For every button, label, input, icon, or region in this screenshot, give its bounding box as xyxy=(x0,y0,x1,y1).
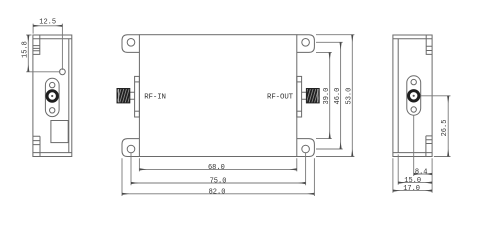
right view SMA center pin xyxy=(413,95,415,97)
svg-text:68.0: 68.0 xyxy=(208,164,225,172)
RF-IN connector flange plate (left edge of front view) xyxy=(135,76,140,117)
svg-text:46.0: 46.0 xyxy=(334,88,342,105)
left view SMA nut ring xyxy=(47,91,57,101)
svg-text:26.5: 26.5 xyxy=(441,120,449,137)
svg-text:75.0: 75.0 xyxy=(210,178,227,186)
left view side screw hole xyxy=(60,69,66,75)
extension lines below front view for 75.0 xyxy=(131,153,306,185)
left view SMA flange outline xyxy=(45,78,59,116)
right view bottom seam line xyxy=(393,152,432,154)
left view bottom seam line xyxy=(33,152,72,154)
left view SMA top screw hole xyxy=(50,82,55,87)
svg-text:8.4: 8.4 xyxy=(415,169,428,177)
svg-text:17.0: 17.0 xyxy=(403,185,420,193)
RF-OUT connector shaft xyxy=(302,92,307,99)
right view center line down from connector xyxy=(413,115,415,176)
dimension line 75.0 xyxy=(131,182,306,184)
extension lines right of front view for 39.0 xyxy=(316,52,332,138)
dimension line 53.0 xyxy=(351,35,353,157)
dimension line 68.0 xyxy=(139,168,296,170)
right view SMA top screw hole xyxy=(411,79,416,84)
left view SMA bottom screw hole xyxy=(50,108,55,113)
dimension line 46.0 xyxy=(340,42,342,149)
svg-text:RF-IN: RF-IN xyxy=(144,93,166,101)
left view window rectangle xyxy=(51,121,68,143)
dimension line 12.5 xyxy=(33,25,62,27)
right view SMA bottom screw hole xyxy=(411,107,416,112)
right view extension line from connector center to right xyxy=(421,95,451,97)
svg-text:82.0: 82.0 xyxy=(209,188,226,196)
right view top step block xyxy=(426,35,432,54)
left view extension lines for 15.8 xyxy=(26,35,60,72)
right view top seam line xyxy=(393,38,432,40)
right view inner wall line xyxy=(397,39,399,153)
front view body rectangle xyxy=(139,35,296,157)
mounting hole bottom-left xyxy=(127,145,135,153)
left view top seam line xyxy=(33,38,72,40)
svg-text:39.0: 39.0 xyxy=(323,88,331,105)
dimension line 15.0 xyxy=(398,182,432,184)
extension lines below front view for 68.0 xyxy=(139,158,296,171)
dimension line 15.8 xyxy=(27,35,29,72)
extension lines below front view for 82.0 xyxy=(122,158,314,196)
mounting tab bottom-right xyxy=(297,139,315,157)
left view SMA center pin xyxy=(51,95,53,97)
left view inner wall line xyxy=(68,39,70,153)
right view bottom-right extension line for 26.5 xyxy=(434,156,451,158)
dimension line 39.0 xyxy=(329,52,331,138)
svg-text:53.0: 53.0 xyxy=(346,88,354,105)
mounting tab top-left xyxy=(122,35,139,53)
right view extension lines below xyxy=(393,154,432,192)
mounting tab top-right xyxy=(297,35,315,53)
extension lines right of front view for 53.0 xyxy=(316,35,354,157)
RF-IN connector shaft xyxy=(130,92,135,99)
RF-OUT connector flange plate (right edge of front view) xyxy=(297,76,302,117)
left view bottom step block xyxy=(33,136,40,156)
dimension line 8.4 xyxy=(414,173,432,175)
right view SMA flange outline xyxy=(407,76,421,115)
svg-text:12.5: 12.5 xyxy=(39,19,56,27)
svg-text:15.0: 15.0 xyxy=(404,177,421,185)
RF-OUT connector hatched nut xyxy=(306,89,319,103)
extension lines right of front view for 46.0 xyxy=(316,42,343,149)
left view top step block xyxy=(33,35,40,54)
RF-IN connector hatched nut xyxy=(117,89,130,103)
svg-text:RF-OUT: RF-OUT xyxy=(267,93,294,101)
left view body outline xyxy=(33,35,72,157)
mounting hole top-right xyxy=(302,39,310,47)
svg-text:15.8: 15.8 xyxy=(22,41,30,58)
dimension line 82.0 xyxy=(122,193,314,195)
left view extension lines for 12.5 xyxy=(33,24,62,70)
right view SMA nut ring xyxy=(409,91,419,101)
mounting hole bottom-right xyxy=(302,145,310,153)
dimension line 26.5 xyxy=(447,96,449,157)
right view bottom step block xyxy=(426,136,432,157)
mounting tab bottom-left xyxy=(122,139,139,157)
mounting hole top-left xyxy=(127,39,135,47)
right view body outline xyxy=(393,35,432,157)
dimension line 17.0 xyxy=(393,190,432,192)
